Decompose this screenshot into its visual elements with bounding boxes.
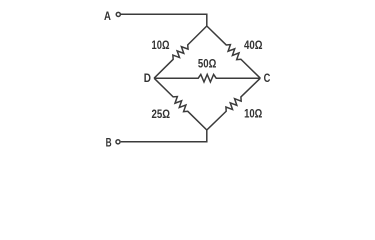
resistor R2 40&#937; (arm A-C)	[207, 26, 260, 78]
svg-text:25Ω: 25Ω	[152, 107, 171, 121]
svg-text:40Ω: 40Ω	[244, 38, 263, 52]
svg-text:B: B	[106, 136, 112, 150]
wire A to top corner	[121, 14, 207, 26]
resistor R1 10&#937; (arm A-D)	[154, 26, 207, 78]
terminal B	[116, 140, 120, 144]
resistor R5 50&#937; (bridge D-C)	[154, 74, 260, 82]
svg-text:10Ω: 10Ω	[244, 107, 262, 121]
resistor R3 25&#937; (arm D-B)	[154, 78, 207, 130]
svg-text:50Ω: 50Ω	[198, 56, 216, 70]
svg-text:A: A	[104, 9, 111, 23]
svg-text:C: C	[264, 71, 271, 85]
resistor R4 10&#937; (arm C-B)	[207, 78, 260, 130]
svg-text:D: D	[144, 71, 151, 85]
wire B to bottom corner	[121, 130, 207, 142]
terminal A	[116, 12, 120, 16]
svg-text:10Ω: 10Ω	[152, 38, 170, 52]
